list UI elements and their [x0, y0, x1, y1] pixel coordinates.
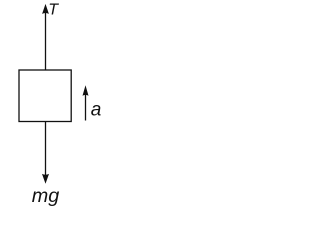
svg-text:a: a [91, 100, 102, 121]
tension arrowhead [42, 4, 49, 14]
weight arrow shaft [45, 122, 47, 176]
wire tension arrow shaft [45, 13, 47, 71]
weight arrowhead [42, 174, 49, 184]
svg-text:T: T [48, 1, 59, 18]
acceleration arrowhead [83, 85, 89, 96]
acceleration arrow shaft [85, 94, 87, 121]
box (block mass) [19, 70, 71, 122]
svg-text:mg: mg [32, 185, 59, 207]
